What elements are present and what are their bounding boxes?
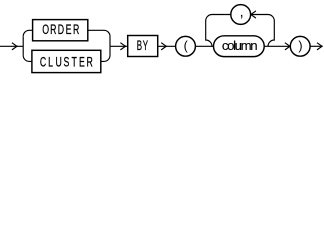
svg-text:R: R (87, 56, 93, 70)
svg-text:B: B (137, 39, 142, 54)
svg-text:S: S (63, 56, 69, 70)
svg-text:E: E (79, 56, 85, 70)
svg-text:Y: Y (143, 39, 149, 54)
svg-text:R: R (50, 23, 56, 37)
svg-text:O: O (42, 23, 49, 37)
svg-text:T: T (71, 56, 76, 70)
svg-text:column: column (222, 38, 258, 53)
svg-text:E: E (66, 23, 72, 37)
svg-text:,: , (240, 4, 244, 20)
svg-text:C: C (40, 56, 46, 70)
svg-text:U: U (55, 56, 61, 70)
svg-text:): ) (298, 39, 302, 53)
svg-text:L: L (48, 56, 53, 70)
svg-text:D: D (58, 23, 64, 37)
svg-text:R: R (73, 23, 79, 37)
